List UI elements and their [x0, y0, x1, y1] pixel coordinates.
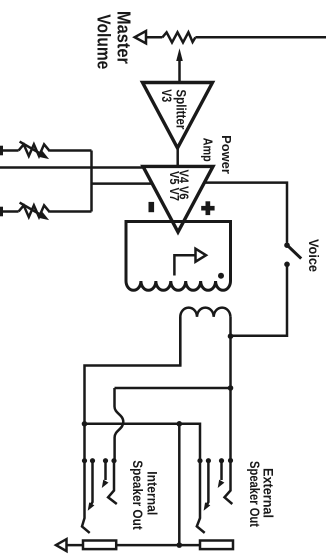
wire divider-tap: [92, 182, 154, 185]
jack J-internal contact T4: [108, 461, 117, 504]
jack J-internal terminals: [82, 458, 87, 463]
wire divider-vertical: [90, 151, 93, 212]
svg-text:V5 V7: V5 V7: [167, 171, 182, 201]
svg-text:Amp: Amp: [201, 138, 216, 162]
wire voice-to-secondary: [231, 264, 288, 335]
power amp triangle U-PA: [143, 166, 213, 232]
wire y388-line: [115, 387, 231, 390]
jack J-external contact T2 arrow: [207, 461, 209, 505]
transformer output arrow: [174, 255, 195, 275]
jack J-external contact T3 arrow: [220, 461, 223, 480]
resistor R-feedback-1: [0, 146, 3, 156]
wire bottom-rail: [67, 544, 84, 547]
transformer T1 box: [126, 222, 231, 282]
svg-text:Power: Power: [219, 135, 234, 174]
resistor R-int-speaker box: [83, 541, 116, 550]
label plus: [201, 206, 214, 211]
svg-text:V3: V3: [159, 89, 175, 102]
node wiper-arrow: [176, 48, 183, 61]
wire wiper: [178, 59, 181, 83]
wire: [146, 36, 162, 39]
svg-text:Master: Master: [113, 11, 133, 64]
wire splitter-to-poweramp: [176, 146, 179, 167]
transformer secondary coil: [180, 308, 230, 366]
wire pa-output-to-voice: [204, 183, 287, 243]
wire y423-line: [85, 424, 201, 461]
resistor R-master-volume: [162, 32, 195, 42]
wire secondary-right-down: [229, 317, 232, 461]
resistor R-ext-speaker box: [200, 541, 233, 550]
node arrow-left-top: [135, 31, 146, 43]
splitter V3 triangle U-V3: [143, 83, 213, 149]
wire secondary-left-down: [85, 317, 181, 461]
jack J-external contact T1: [197, 461, 205, 533]
jack J-internal contact T2 arrow: [91, 461, 93, 505]
jack J-internal contact T3 arrow: [104, 461, 107, 480]
resistor R-feedback-2: [0, 207, 3, 217]
label minus: [149, 202, 155, 212]
jack J-internal contact T1: [82, 461, 90, 533]
wire mid-vertical-to-bottom: [178, 424, 181, 545]
jack J-external contact T4: [225, 461, 233, 505]
jack J-external terminals: [197, 458, 202, 463]
svg-text:Internal: Internal: [145, 471, 160, 515]
switch SW-voice: [284, 242, 290, 248]
transformer phase dot: [218, 273, 224, 279]
svg-text:Voice: Voice: [306, 239, 322, 272]
svg-text:Speaker Out: Speaker Out: [247, 461, 262, 527]
transformer T1 primary scallops: [126, 281, 231, 290]
wire pa-input-left: [0, 166, 146, 169]
svg-text:Volume: Volume: [94, 14, 114, 69]
node arrow-bottom-left: [56, 539, 67, 551]
node junction dots: [82, 421, 88, 427]
wire hop-down-to-T4int: [115, 388, 124, 461]
wire: [195, 36, 326, 39]
svg-text:Speaker Out: Speaker Out: [130, 460, 145, 530]
